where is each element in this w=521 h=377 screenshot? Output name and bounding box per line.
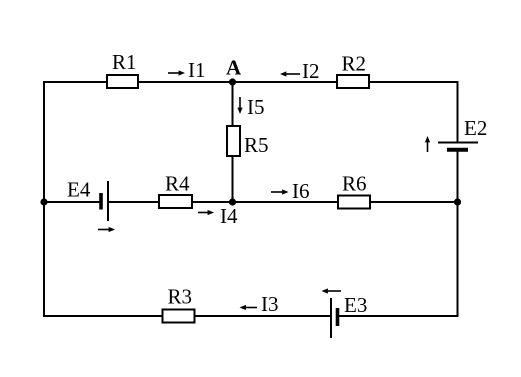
svg-text:R2: R2 xyxy=(342,52,367,76)
resistor R6 xyxy=(338,172,370,209)
node middle-left xyxy=(40,198,47,205)
arrow E4 direction xyxy=(98,227,115,232)
svg-text:I5: I5 xyxy=(247,95,265,119)
wire right side upper segment xyxy=(457,81,459,142)
arrow I2 xyxy=(280,59,320,83)
svg-text:E4: E4 xyxy=(67,178,91,202)
svg-text:R3: R3 xyxy=(168,285,193,309)
svg-text:I6: I6 xyxy=(292,179,310,203)
arrow I4 xyxy=(198,204,238,228)
wire center vertical branch xyxy=(232,82,234,202)
battery E3 xyxy=(331,293,367,338)
resistor R4 xyxy=(159,172,192,209)
svg-text:E3: E3 xyxy=(344,293,367,317)
node middle-right xyxy=(454,198,461,205)
svg-text:R4: R4 xyxy=(165,172,190,196)
arrow I1 xyxy=(168,58,206,82)
wire middle right segment xyxy=(108,201,458,203)
svg-text:I2: I2 xyxy=(302,59,320,83)
wire left side xyxy=(43,81,45,317)
svg-text:R5: R5 xyxy=(244,133,269,157)
wire right side lower segment xyxy=(457,151,459,318)
arrow I5 xyxy=(237,95,264,119)
svg-text:I3: I3 xyxy=(261,292,279,316)
arrow I3 xyxy=(240,292,279,316)
battery E4 xyxy=(67,178,108,222)
node A xyxy=(226,56,242,86)
resistor R1 xyxy=(107,50,138,88)
resistor R3 xyxy=(163,285,195,323)
wire top (left loop top side) xyxy=(43,81,458,83)
wire bottom left segment xyxy=(43,315,330,317)
svg-text:R1: R1 xyxy=(112,50,137,74)
battery E2 xyxy=(438,116,487,150)
arrow I6 xyxy=(271,179,310,203)
arrow E3 direction xyxy=(322,288,342,293)
arrow E2 direction xyxy=(425,136,430,152)
svg-text:A: A xyxy=(226,56,242,80)
svg-text:R6: R6 xyxy=(342,172,367,196)
wire bottom right segment xyxy=(339,315,459,317)
wire middle left segment xyxy=(43,201,100,203)
svg-text:E2: E2 xyxy=(464,116,487,140)
node R5-bottom junction xyxy=(229,198,236,205)
resistor R2 xyxy=(337,52,369,89)
svg-text:I4: I4 xyxy=(220,204,238,228)
resistor R5 xyxy=(227,126,269,157)
svg-text:I1: I1 xyxy=(188,58,206,82)
